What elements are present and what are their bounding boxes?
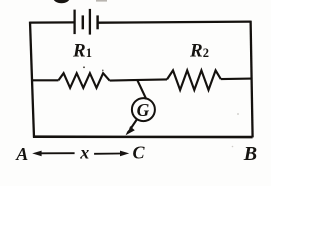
dimension arrow right (toward C) [94,153,120,155]
stray ink blob (cut-off text) at top edge [53,0,69,3]
battery plate short [82,15,84,29]
galvanometer G circle [132,98,155,121]
svg-text:G: G [137,100,150,120]
ink speck above R1 [83,66,85,68]
svg-text:R2: R2 [189,41,209,62]
ink speck above R1 right [102,70,104,72]
svg-text:B: B [243,143,257,165]
dimension arrow left (toward A) [40,152,75,154]
wire: right vertical [251,21,253,138]
svg-text:x: x [79,143,89,163]
svg-text:R1: R1 [72,41,92,62]
svg-text:A: A [15,144,28,164]
wire: junction down to galvanometer [137,79,146,99]
wire: galvanometer to arrow at C [130,120,137,130]
faint top-edge text remnant [96,0,107,2]
resistor R2 zigzag [167,70,221,90]
wire: R1 to R2 (junction node at 138.5,79) [110,79,167,80]
wire: bottom [33,135,253,138]
wire: battery to top-right corner [98,22,251,23]
wire: top-left segment to battery [30,21,75,24]
wire: R2 to right vertical [221,78,252,81]
battery plate long (left) [73,10,75,34]
faint scan speck left of B [232,146,234,148]
faint scan speck right area [237,113,239,115]
battery plate long (right) [89,9,91,35]
resistor R1 zigzag [59,73,110,88]
battery plate short (right, wire tap) [96,15,98,29]
svg-text:C: C [133,143,146,163]
wire: left vertical [30,22,34,138]
wire: middle-left to R1 [33,79,59,81]
arrowhead onto bottom wire at C [126,126,135,135]
